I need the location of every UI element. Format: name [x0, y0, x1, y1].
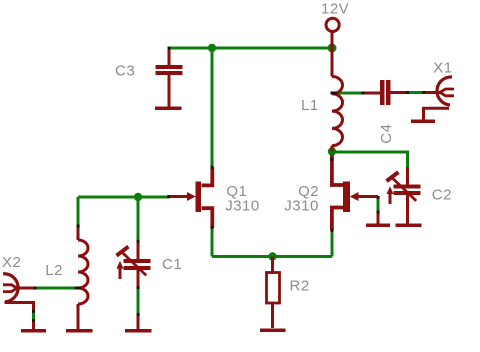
capacitor C4 — [363, 80, 408, 105]
junction at bottom rail / R2 node — [268, 252, 276, 260]
svg-text:L1: L1 — [301, 97, 319, 114]
ground under L2 — [66, 329, 93, 333]
svg-text:C1: C1 — [162, 256, 182, 273]
ground under C3 — [155, 106, 182, 110]
wire: node down to C1 top — [137, 197, 140, 242]
svg-text:C3: C3 — [115, 63, 135, 80]
connector X1 — [424, 77, 455, 120]
node: L1 tap point — [331, 92, 338, 95]
transistor Q1 J310 — [169, 167, 213, 228]
svg-text:12V: 12V — [321, 0, 349, 17]
svg-text:X2: X2 — [2, 254, 21, 271]
trimmer capacitor C1 — [117, 241, 151, 288]
wire: C4 to X1 pin — [408, 91, 425, 94]
svg-text:X1: X1 — [433, 60, 452, 77]
trimmer capacitor C2 — [387, 167, 421, 224]
ground under C2 — [396, 224, 422, 228]
supply pin 12V — [326, 18, 339, 48]
wire: X2 shield to ground — [32, 311, 35, 321]
wire: gate rail from L2 top to Q1 gate — [78, 196, 169, 199]
wire: L1 tap to C4 — [336, 92, 363, 95]
wire: L2 top vertical — [77, 197, 80, 227]
ground under C1 — [125, 314, 152, 331]
wire: top rail net from C3 to 12V node — [168, 47, 333, 50]
wire: Q2 gate down segment — [377, 198, 380, 213]
resistor R2 — [267, 257, 280, 329]
svg-text:C4: C4 — [378, 124, 395, 144]
connector X2 (mirrored) — [3, 274, 34, 312]
ground under Q2 gate — [366, 224, 390, 228]
inductor L2 with tap — [78, 226, 88, 329]
wire: Q1 drain vertical net — [211, 48, 214, 167]
wire: Q2 source down to bottom rail — [331, 230, 334, 257]
capacitor C3 — [156, 48, 183, 107]
junction at L1 bottom / Q2 drain / C2 node — [328, 147, 336, 155]
ground under R2 — [260, 328, 286, 332]
junction at gate rail / C1 node — [134, 193, 142, 201]
pin transition dots — [32, 47, 425, 322]
node: L2 tap point — [75, 287, 81, 290]
wire: L1 bottom node to C2 top — [332, 152, 408, 168]
transistor Q2 J310 (mirrored) — [332, 155, 378, 231]
wire: X2 pin to L2 tap — [34, 287, 79, 290]
ground under X2 — [21, 320, 46, 331]
svg-text:R2: R2 — [290, 278, 310, 295]
svg-text:C2: C2 — [432, 187, 452, 204]
ground under X1 — [411, 119, 435, 123]
svg-text:L2: L2 — [45, 262, 63, 279]
inductor L1 with tap — [332, 48, 343, 152]
wire: bottom rail between Q1 and Q2 sources — [212, 255, 332, 258]
svg-text:J310: J310 — [225, 198, 260, 215]
junction at 12V node — [328, 44, 337, 53]
wire: Q1 source down to bottom rail — [211, 228, 214, 257]
wire: C1 bottom to ground pin — [137, 288, 140, 316]
junction at C3/top-rail Q1 drain node — [208, 44, 216, 52]
svg-text:J310: J310 — [284, 198, 319, 215]
